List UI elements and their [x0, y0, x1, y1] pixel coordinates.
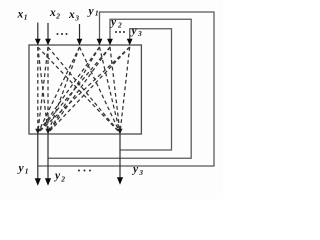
feedback loop y2 wire: [48, 19, 191, 158]
dashed weight lines from input x1: [38, 47, 120, 133]
dashed weight lines from feedback y1: [38, 47, 120, 133]
svg-text:y: y: [53, 170, 61, 182]
svg-text:3: 3: [74, 14, 79, 23]
node convergence wedge y3: [117, 129, 122, 134]
wire input x1: [35, 23, 41, 46]
dots between x2 and x3: [57, 33, 68, 35]
wire input x3: [77, 24, 83, 45]
network box: [29, 45, 141, 134]
svg-text:y: y: [109, 17, 117, 29]
svg-text:1: 1: [25, 167, 29, 176]
svg-text:2: 2: [60, 175, 65, 184]
svg-text:3: 3: [137, 29, 142, 38]
dashed weight lines from input x2: [38, 47, 120, 133]
svg-text:y: y: [87, 6, 95, 18]
svg-text:y: y: [17, 163, 25, 175]
dots between feedback y2 and y3: [115, 31, 125, 33]
node convergence wedge y1: [35, 129, 40, 134]
wire input x2: [45, 23, 51, 45]
output y1 wire: [35, 134, 41, 186]
dashed weight lines from feedback y2: [38, 47, 120, 133]
dashed weight lines from feedback y3: [38, 47, 130, 133]
node convergence wedge y2: [45, 129, 50, 134]
svg-text:x: x: [49, 7, 56, 19]
svg-text:3: 3: [138, 168, 143, 177]
output y2 wire: [45, 134, 51, 186]
svg-text:x: x: [17, 9, 24, 21]
svg-text:1: 1: [24, 13, 28, 22]
feedback loop y3 wire: [120, 29, 172, 150]
svg-text:y: y: [131, 164, 139, 176]
svg-text:y: y: [130, 25, 138, 37]
feedback loop y1 wire: [38, 12, 214, 166]
svg-text:2: 2: [55, 12, 60, 21]
dots between output y2 and y3: [78, 170, 91, 172]
dashed weight lines from input x3: [38, 47, 120, 133]
svg-text:2: 2: [117, 21, 122, 30]
output y3 wire: [117, 134, 123, 185]
svg-text:1: 1: [95, 9, 99, 18]
svg-text:x: x: [68, 9, 75, 21]
